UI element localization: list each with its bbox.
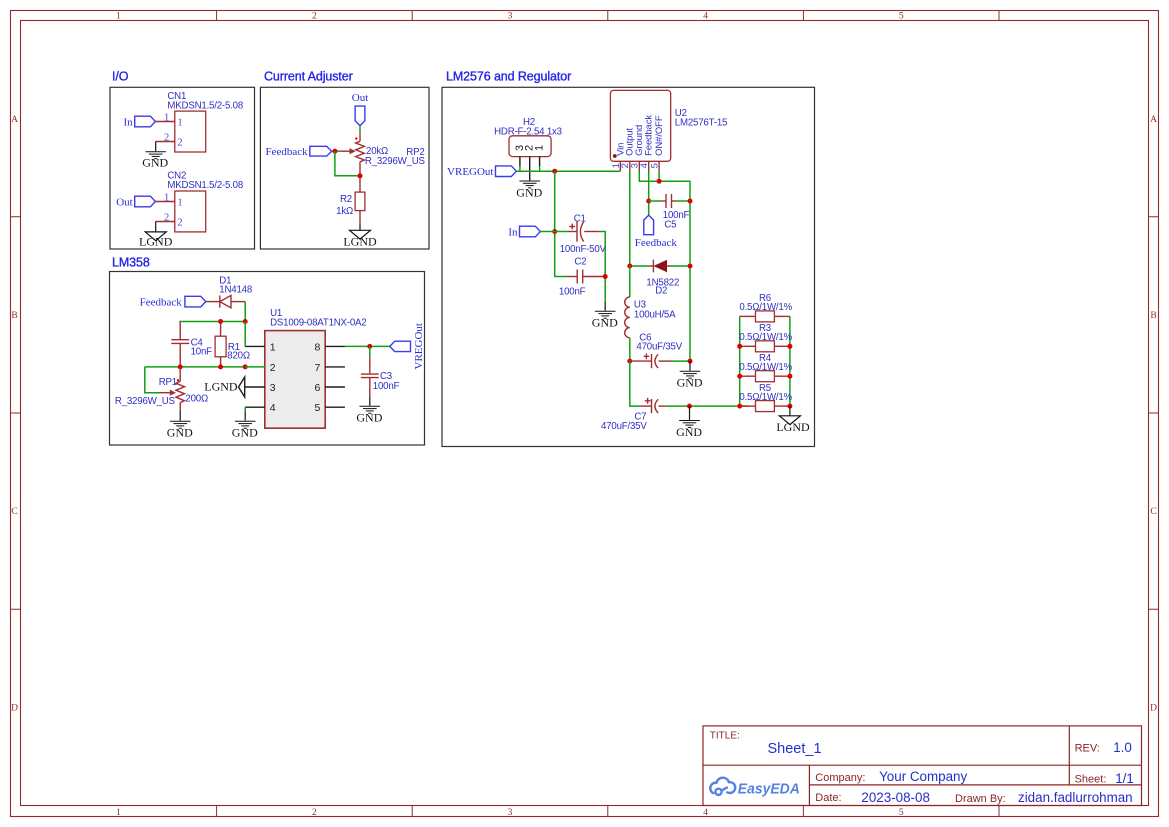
svg-text:B: B [1150, 311, 1156, 321]
svg-text:C1: C1 [574, 213, 586, 224]
resistor R3 [740, 345, 756, 347]
ground GND (H2) [519, 181, 540, 188]
svg-text:8: 8 [315, 341, 321, 353]
wire ON/OFF pin [658, 171, 660, 182]
net flag In [135, 116, 156, 127]
svg-text:2: 2 [270, 362, 276, 374]
svg-text:Out: Out [116, 196, 133, 208]
svg-text:2: 2 [312, 808, 317, 818]
svg-text:R_3296W_US: R_3296W_US [365, 156, 426, 167]
svg-text:B: B [11, 311, 17, 321]
pin 7 [325, 366, 345, 368]
svg-text:MKDSN1.5/2-5.08: MKDSN1.5/2-5.08 [167, 180, 243, 191]
svg-text:RP1: RP1 [159, 377, 177, 388]
svg-text:DS1009-08AT1NX-0A2: DS1009-08AT1NX-0A2 [270, 317, 366, 328]
header H2 body [509, 136, 551, 157]
wire CN2 pin2 to ground [155, 222, 157, 232]
ground LGND (R2) [350, 230, 371, 239]
plus sign C7 [645, 398, 651, 404]
svg-text:Out: Out [352, 92, 369, 104]
wire CN1 pin1 [155, 121, 174, 123]
svg-text:LGND: LGND [343, 235, 377, 249]
svg-text:5: 5 [315, 402, 321, 414]
svg-text:1: 1 [164, 193, 169, 204]
svg-text:Company:: Company: [815, 772, 865, 784]
section box LM358 [110, 272, 425, 446]
svg-text:In: In [508, 226, 518, 238]
diode D2 [630, 265, 649, 267]
trimmer RP2 wiper arrow [335, 150, 341, 152]
svg-text:200Ω: 200Ω [185, 394, 208, 405]
svg-text:A: A [1150, 115, 1157, 125]
wire wiper elbow [145, 367, 160, 393]
wire C1 right elbow [600, 232, 606, 302]
junction C5 right [688, 199, 693, 204]
pin 5 [325, 406, 345, 408]
svg-text:VREGOut: VREGOut [413, 323, 425, 369]
svg-text:3: 3 [508, 12, 513, 22]
svg-text:D2: D2 [655, 285, 667, 296]
svg-text:GND: GND [592, 316, 618, 330]
junction C5 left [646, 199, 651, 204]
svg-text:C: C [1150, 507, 1156, 517]
svg-text:Your Company: Your Company [879, 769, 967, 784]
svg-text:LGND: LGND [139, 235, 173, 249]
ground GND (CN1) [145, 152, 166, 159]
svg-text:EasyEDA: EasyEDA [738, 780, 800, 797]
svg-text:1: 1 [270, 341, 276, 353]
EasyEDA logo cloud [710, 778, 735, 795]
regulator U2 body [610, 90, 670, 161]
svg-text:4: 4 [703, 808, 708, 818]
junction R4 left [737, 374, 742, 379]
svg-text:1.0: 1.0 [1113, 740, 1132, 755]
svg-text:GND: GND [142, 156, 168, 170]
trimmer RP1 [179, 367, 181, 382]
svg-text:LGND: LGND [776, 420, 810, 434]
op-amp U1 body [265, 331, 325, 429]
svg-text:470uF/35V: 470uF/35V [636, 341, 682, 352]
wire U2 pin5 stub [658, 161, 660, 170]
junction C4 bottom [178, 364, 183, 369]
svg-text:C: C [11, 507, 17, 517]
wire top horizontal net [179, 321, 245, 323]
section box LM2576 and Regulator [442, 87, 815, 446]
net flag Feedback (up) [644, 215, 654, 235]
pin 1 [245, 345, 265, 347]
wire U2 pin3 stub [638, 161, 640, 170]
capacitor C1 [569, 231, 578, 233]
pin 6 [325, 386, 345, 388]
svg-text:100nF-50V: 100nF-50V [560, 244, 607, 255]
junction R1 top [218, 319, 223, 324]
wire Output column [629, 171, 631, 267]
svg-text:4: 4 [703, 12, 708, 22]
capacitor C5 [649, 200, 662, 202]
junction at feedback tap [332, 149, 337, 154]
svg-text:GND: GND [516, 185, 542, 199]
svg-text:1: 1 [534, 145, 546, 151]
svg-text:100uH/5A: 100uH/5A [634, 310, 676, 321]
svg-text:7: 7 [315, 362, 321, 374]
wire Vin column vertical [555, 171, 566, 276]
wire VREGOut to U2 pin1 [516, 170, 620, 172]
junction Vin column [552, 169, 557, 174]
wire C7 right row [666, 405, 749, 407]
pin 4 [245, 406, 265, 408]
wire node to pin1 [244, 322, 246, 347]
junction D2 left [627, 264, 632, 269]
svg-text:470uF/35V: 470uF/35V [601, 421, 647, 432]
junction R3 left [737, 344, 742, 349]
junction D1 node [243, 319, 248, 324]
svg-text:GND: GND [356, 411, 382, 425]
svg-text:LM358: LM358 [112, 256, 150, 270]
svg-text:820Ω: 820Ω [227, 351, 250, 362]
svg-text:I/O: I/O [112, 70, 129, 84]
net flag Out [135, 196, 156, 207]
svg-text:Feedback: Feedback [644, 115, 655, 156]
pin 2 [245, 366, 265, 368]
svg-text:Drawn By:: Drawn By: [955, 793, 1006, 805]
section box Current Adjuster [260, 87, 429, 249]
wire H2 pin1 [539, 157, 541, 166]
svg-text:1: 1 [116, 808, 121, 818]
plus sign C1 [569, 224, 575, 230]
ground GND (C6) [680, 371, 701, 378]
svg-text:zidan.fadlurrohman: zidan.fadlurrohman [1018, 790, 1133, 805]
svg-text:2023-08-08: 2023-08-08 [861, 790, 930, 805]
wire middle horizontal net (pin2) [145, 366, 245, 368]
net flag VREGOut [390, 341, 411, 351]
wire R2 to ground [359, 211, 361, 224]
wire Ground pin elbow [639, 171, 690, 362]
wire Out flag to RP2 [359, 126, 361, 133]
svg-text:2: 2 [312, 12, 317, 22]
svg-text:LM2576T-15: LM2576T-15 [675, 118, 727, 129]
capacitor C3 [369, 346, 371, 356]
ground GND (C7) [679, 421, 700, 428]
net flag Feedback (LM358) [185, 296, 206, 307]
svg-text:GND: GND [677, 376, 703, 390]
pin1 marker dot U2 [613, 154, 617, 158]
wire pin8 to VREGOut [345, 345, 390, 347]
net flag In [520, 226, 541, 237]
section box I/O [110, 87, 255, 249]
svg-text:D: D [1150, 703, 1157, 713]
svg-text:4: 4 [270, 402, 276, 414]
junction C7 ground tap [687, 404, 692, 409]
wire U2 pin2 stub [629, 161, 631, 170]
wire C3 to ground [369, 396, 371, 405]
svg-text:C5: C5 [664, 219, 676, 230]
net flag Feedback [310, 146, 332, 156]
ground GND (RP1) [170, 421, 191, 428]
resistor R4 [740, 375, 756, 377]
svg-text:VREGOut: VREGOut [447, 166, 493, 178]
wire U2 pin4 stub [648, 161, 650, 170]
connector CN1 body [175, 111, 206, 152]
capacitor C2 [566, 276, 577, 278]
net flag VREGOut (left) [496, 166, 517, 177]
svg-text:2: 2 [177, 218, 182, 229]
wire CN1 pin2 to ground [155, 142, 157, 152]
junction C6 right [688, 359, 693, 364]
svg-text:GND: GND [232, 426, 258, 440]
svg-text:Feedback: Feedback [140, 296, 183, 308]
net flag LGND (pin3) [239, 377, 245, 397]
svg-text:A: A [11, 115, 18, 125]
pin 8 [325, 345, 345, 347]
junction pin2 node [243, 364, 248, 369]
junction R4 right [787, 374, 792, 379]
junction D2 right [688, 264, 693, 269]
net flag Out (top) [355, 106, 365, 126]
svg-text:HDR-F-2.54 1x3: HDR-F-2.54 1x3 [494, 127, 562, 138]
svg-text:1: 1 [164, 113, 169, 124]
svg-text:LGND: LGND [204, 379, 238, 393]
wire Feedback pin [648, 171, 650, 216]
svg-text:5: 5 [899, 12, 904, 22]
svg-text:3: 3 [270, 382, 276, 394]
svg-text:2: 2 [164, 133, 169, 144]
wire C6 node down to C7 [630, 361, 640, 406]
wire In row [540, 231, 568, 233]
svg-text:R2: R2 [340, 194, 352, 205]
wire CN2 pin2 [156, 221, 175, 223]
resistor R5 [740, 405, 756, 407]
resistor R6 [740, 315, 756, 317]
wire RP1 to ground [179, 410, 181, 420]
ground GND (C3) [360, 406, 381, 413]
svg-text:LM2576 and Regulator: LM2576 and Regulator [446, 70, 571, 84]
junction C3 top [367, 344, 372, 349]
ground LGND (bank) [779, 416, 800, 425]
capacitor C4 [179, 322, 181, 340]
wire CN2 pin1 [155, 201, 174, 203]
wire C6 right to ground [689, 361, 691, 371]
svg-text:2: 2 [164, 213, 169, 224]
junction R3 right [787, 344, 792, 349]
resistor R1 [220, 322, 222, 337]
svg-text:6: 6 [315, 382, 321, 394]
trimmer RP2 [359, 133, 361, 142]
svg-text:MKDSN1.5/2-5.08: MKDSN1.5/2-5.08 [167, 100, 243, 111]
resistor R2 body [355, 192, 365, 211]
ground GND (pin4) [235, 421, 256, 428]
junction C2 right [603, 274, 608, 279]
diode D1 [206, 301, 220, 303]
svg-text:0.5Ω/1W/1%: 0.5Ω/1W/1% [739, 332, 792, 343]
svg-text:3: 3 [508, 808, 513, 818]
svg-text:100nF: 100nF [559, 287, 586, 298]
svg-text:Current Adjuster: Current Adjuster [264, 70, 353, 84]
svg-text:TITLE:: TITLE: [710, 730, 740, 741]
svg-text:0.5Ω/1W/1%: 0.5Ω/1W/1% [739, 302, 792, 313]
svg-text:REV:: REV: [1075, 742, 1100, 754]
svg-text:1: 1 [177, 118, 182, 129]
svg-text:1N4148: 1N4148 [219, 285, 252, 296]
connector CN2 body [175, 191, 206, 232]
svg-text:Sheet_1: Sheet_1 [768, 741, 822, 757]
junction In row [552, 229, 557, 234]
svg-text:GND: GND [676, 425, 702, 439]
svg-text:Sheet:: Sheet: [1075, 774, 1107, 786]
wire resistor bank right rail [789, 316, 791, 406]
svg-text:Date:: Date: [815, 792, 841, 804]
inductor U3 [629, 266, 631, 297]
junction ON/OFF to ground rail [657, 179, 662, 184]
capacitor C7 [640, 405, 652, 407]
junction R5 right [787, 404, 792, 409]
plus sign C6 [644, 353, 650, 359]
wire C2 node to ground [604, 301, 606, 310]
junction R5 left [737, 404, 742, 409]
svg-text:ON#/OFF: ON#/OFF [654, 115, 665, 156]
svg-text:1/1: 1/1 [1115, 771, 1134, 786]
svg-text:100nF: 100nF [373, 381, 400, 392]
svg-text:2: 2 [177, 138, 182, 149]
wire H2 pin3 [519, 157, 521, 166]
svg-text:R_3296W_US: R_3296W_US [115, 396, 176, 407]
svg-text:GND: GND [167, 426, 193, 440]
svg-text:1kΩ: 1kΩ [336, 206, 353, 217]
junction RP2 bottom [358, 173, 363, 178]
pin 3 [245, 386, 265, 388]
svg-text:D: D [11, 703, 18, 713]
svg-text:1: 1 [177, 198, 182, 209]
junction R1 bottom [218, 364, 223, 369]
wire U2 pin1 stub [619, 161, 621, 171]
ground LGND (CN2) [145, 232, 166, 241]
svg-text:0.5Ω/1W/1%: 0.5Ω/1W/1% [739, 392, 792, 403]
junction C6 left [627, 359, 632, 364]
svg-text:C2: C2 [574, 256, 586, 267]
svg-text:0.5Ω/1W/1%: 0.5Ω/1W/1% [739, 362, 792, 373]
svg-text:10nF: 10nF [191, 346, 213, 357]
capacitor C6 [630, 360, 652, 362]
trimmer RP1 wiper arrow [160, 392, 171, 394]
wire feedback elbow [335, 151, 360, 176]
wire H2 pin2 [529, 157, 531, 181]
wire resistor bank left rail [739, 316, 741, 406]
svg-text:Feedback: Feedback [265, 146, 308, 158]
svg-text:1: 1 [116, 12, 121, 22]
wire CN1 pin2 [156, 141, 175, 143]
wire to ground (C7) [689, 406, 691, 420]
svg-text:Feedback: Feedback [635, 237, 678, 249]
wire pin4 to ground [244, 407, 246, 411]
wire right rail to LGND [789, 406, 791, 416]
svg-text:In: In [124, 116, 134, 128]
svg-text:5: 5 [899, 808, 904, 818]
ground GND (C1 C2) [595, 311, 616, 318]
wire D1 down to node [244, 302, 246, 322]
